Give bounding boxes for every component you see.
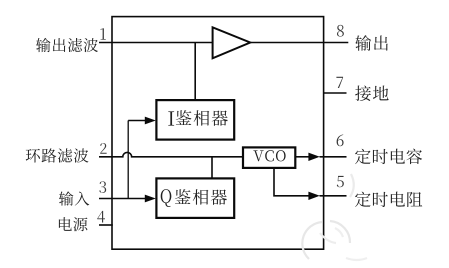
pin number 8: [337, 25, 344, 37]
label 电源 (pin 4, power supply): [59, 217, 88, 231]
wire pin7 接地 stub: [324, 92, 347, 94]
wire vertical drop from pin1 net to I phase detector: [194, 43, 196, 101]
IC package outline: [112, 17, 324, 250]
op-amp output amplifier: [213, 27, 251, 58]
arrowhead to pin6 (timing capacitor): [308, 153, 319, 161]
label 定时电阻 (pin 5, timing resistor): [355, 192, 422, 207]
wire VCO output to pin6: [295, 156, 310, 158]
arrowhead to pin5 (timing resistor): [308, 192, 319, 200]
wire input branch vertical (pin3 net riser): [127, 121, 129, 199]
label Q鉴相器: [161, 189, 227, 207]
wire pin5 定时电阻 stub: [320, 195, 347, 197]
wire pin2-net junction down to Q detector top: [211, 157, 213, 179]
wire pin3 输入 to Q detector: [99, 198, 146, 200]
wire pin1 net (输出滤波 to amplifier input): [99, 42, 213, 44]
label 接地 (pin 7, ground): [355, 85, 388, 101]
wire pin6 定时电容 stub: [320, 156, 347, 158]
wire input branch to I detector: [128, 120, 146, 122]
label I鉴相器: [168, 110, 228, 126]
label 输出 (pin 8, output): [355, 35, 388, 51]
pin number 6: [337, 135, 344, 147]
pin number 5: [337, 176, 344, 187]
block VCO (voltage controlled oscillator): [243, 147, 295, 168]
pin number 7: [336, 77, 343, 88]
arrowhead into I detector: [145, 117, 156, 125]
label 输出滤波 (pin 1, output filter): [36, 38, 98, 52]
block Q鉴相器 (Q phase detector): [156, 178, 234, 218]
wire VCO bottom to pin5: [274, 168, 310, 196]
wire pin4 电源 stub: [99, 224, 113, 226]
wire amplifier output to pin8: [250, 42, 348, 44]
wire pin2 环路滤波 to VCO with hop over input branch: [99, 152, 243, 156]
pin number 2: [100, 143, 106, 154]
arrowhead into Q detector: [145, 195, 156, 203]
pin number 3: [99, 181, 106, 193]
pin number 4: [97, 211, 105, 223]
pin number 1: [100, 28, 106, 39]
block I鉴相器 (I phase detector): [156, 100, 234, 140]
label VCO: [253, 150, 285, 161]
label 环路滤波 (pin 2, loop filter): [26, 148, 89, 162]
label 输入 (pin 3, input): [59, 191, 89, 205]
label 定时电容 (pin 6, timing capacitor): [355, 149, 422, 164]
faint watermark ghost arcs (decorative): [302, 174, 367, 260]
